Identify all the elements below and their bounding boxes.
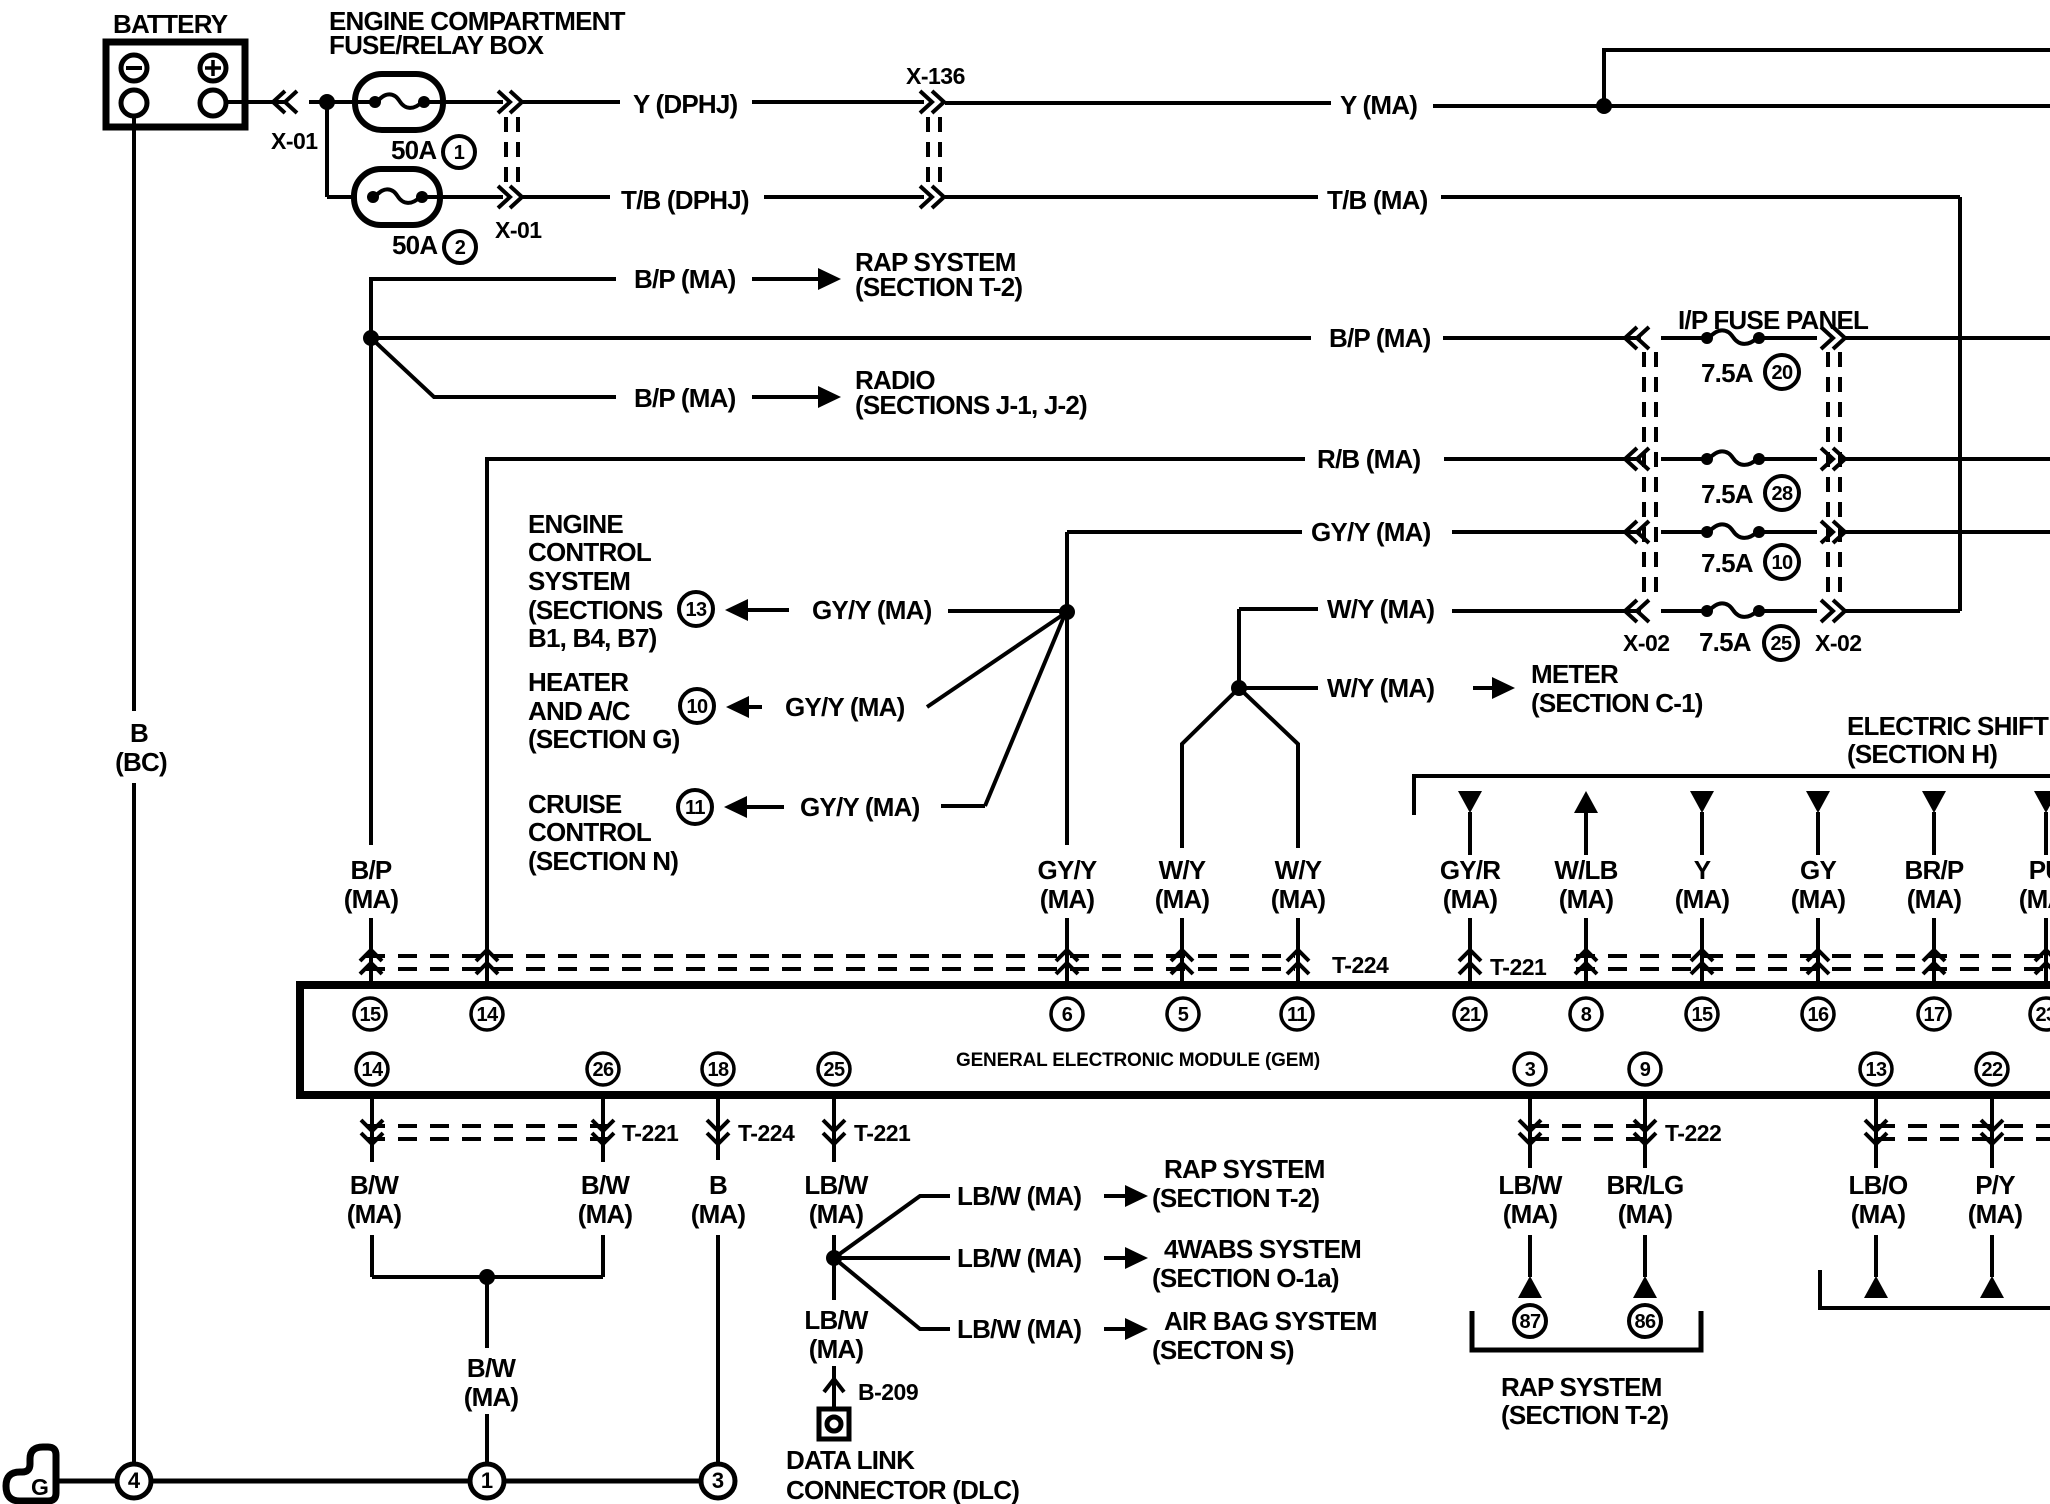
- fuse 7.5A 10: [1637, 521, 1649, 543]
- svg-text:(MA): (MA): [1040, 884, 1095, 914]
- GEM pin 6: [1051, 998, 1083, 1030]
- svg-text:SYSTEM: SYSTEM: [528, 566, 630, 596]
- electric shift wire W/LB (MA): [1574, 791, 1598, 813]
- svg-text:11: 11: [685, 797, 705, 819]
- svg-text:B1, B4, B7): B1, B4, B7): [528, 623, 657, 653]
- RAP system bracket: [1472, 1311, 1701, 1350]
- svg-text:1: 1: [481, 1468, 493, 1493]
- wire R/B (MA): [487, 459, 1305, 985]
- electric shift bracket: [1414, 776, 2050, 815]
- svg-text:(SECTION N): (SECTION N): [528, 846, 678, 876]
- ground node 3: [701, 1464, 735, 1498]
- electric shift wire GY (MA): [1806, 791, 1830, 813]
- GEM pin 9: [1629, 1053, 1661, 1085]
- svg-text:I/P FUSE PANEL: I/P FUSE PANEL: [1678, 305, 1869, 335]
- svg-text:X-136: X-136: [906, 63, 965, 89]
- svg-text:(SECTON S): (SECTON S): [1152, 1335, 1294, 1365]
- svg-text:PU: PU: [2029, 855, 2050, 885]
- svg-text:AND A/C: AND A/C: [528, 696, 631, 726]
- svg-text:B/P (MA): B/P (MA): [634, 264, 736, 294]
- wire LB/W (MA) from GEM pin 3: [1528, 1095, 1532, 1168]
- wire B/P (MA) trunk down to GEM pin 15: [369, 338, 373, 845]
- GEM pin 22: [1976, 1053, 2008, 1085]
- svg-text:CONTROL: CONTROL: [528, 817, 652, 847]
- svg-text:DATA LINK: DATA LINK: [786, 1445, 915, 1475]
- connector X-02 boundary dashes right: [1826, 352, 1830, 600]
- electric shift wire GY/R (MA): [1458, 791, 1482, 813]
- svg-text:P/Y: P/Y: [1975, 1170, 2015, 1200]
- svg-text:20: 20: [1771, 362, 1793, 384]
- svg-text:T-224: T-224: [738, 1120, 795, 1146]
- harness T-222 below GEM: [1530, 1124, 1645, 1128]
- connector X-01 boundary dashes: [504, 117, 508, 184]
- wire GY/Y (MA) to engine control: [743, 608, 789, 612]
- svg-text:18: 18: [707, 1059, 729, 1081]
- node B/W junction: [479, 1269, 495, 1285]
- wire GY/Y (MA) to cruise control: [742, 805, 784, 809]
- svg-text:14: 14: [476, 1004, 499, 1026]
- svg-text:26: 26: [592, 1059, 614, 1081]
- wire W/Y (MA) to meter: [1246, 686, 1318, 690]
- svg-text:LB/W (MA): LB/W (MA): [957, 1314, 1081, 1344]
- svg-text:14: 14: [361, 1059, 384, 1081]
- svg-text:25: 25: [1770, 633, 1792, 655]
- wire BR/LG (MA) from GEM pin 9: [1643, 1095, 1647, 1168]
- svg-text:11: 11: [1287, 1004, 1307, 1026]
- svg-text:6: 6: [1062, 1004, 1073, 1026]
- svg-text:Y (DPHJ): Y (DPHJ): [633, 89, 738, 119]
- GEM pin 18: [702, 1053, 734, 1085]
- wire B/W (MA) from GEM pin 14: [370, 1095, 374, 1162]
- connector X-01 output row 1: [498, 91, 510, 113]
- svg-text:(SECTION C-1): (SECTION C-1): [1531, 688, 1703, 718]
- svg-text:W/Y (MA): W/Y (MA): [1327, 673, 1434, 703]
- wire Y branch to top right: [1604, 50, 2050, 106]
- wire W/Y (MA) from fuse 25: [1239, 607, 1318, 611]
- wire LB/W (MA) to RAP system: [834, 1196, 950, 1258]
- node B/P junction: [363, 330, 379, 346]
- svg-text:LB/O: LB/O: [1849, 1170, 1908, 1200]
- svg-text:1: 1: [454, 142, 465, 164]
- wire B (MA) from GEM pin 18: [716, 1095, 720, 1160]
- wire W/Y trunk: [1237, 609, 1241, 688]
- svg-text:B/P (MA): B/P (MA): [1329, 323, 1431, 353]
- GEM pin 14 top: [471, 998, 503, 1030]
- wire B/W (MA) from GEM pin 26: [601, 1095, 605, 1162]
- svg-text:3: 3: [712, 1468, 724, 1493]
- wire LB/O (MA) from GEM pin 13: [1874, 1095, 1878, 1168]
- svg-text:T-224: T-224: [1332, 952, 1389, 978]
- svg-text:17: 17: [1923, 1004, 1945, 1026]
- svg-text:(SECTION T-2): (SECTION T-2): [1501, 1400, 1668, 1430]
- svg-text:W/Y: W/Y: [1159, 855, 1206, 885]
- terminal 87: [1514, 1305, 1546, 1337]
- svg-text:4: 4: [128, 1468, 141, 1493]
- wire W/Y branch to GEM pin 5: [1182, 688, 1239, 848]
- GEM pin 26: [587, 1053, 619, 1085]
- svg-text:GY/Y (MA): GY/Y (MA): [812, 595, 932, 625]
- wire GY/Y (MA) from fuse 10: [1067, 530, 1302, 534]
- svg-text:LB/W (MA): LB/W (MA): [957, 1243, 1081, 1273]
- electric shift bottom bracket: [1820, 1270, 2050, 1308]
- svg-text:X-01: X-01: [495, 217, 542, 243]
- svg-text:GY/Y (MA): GY/Y (MA): [1311, 517, 1431, 547]
- svg-text:W/LB: W/LB: [1554, 855, 1617, 885]
- svg-text:(SECTION G): (SECTION G): [528, 724, 680, 754]
- svg-text:B: B: [130, 718, 148, 748]
- svg-text:B: B: [709, 1170, 727, 1200]
- svg-text:B/P (MA): B/P (MA): [634, 383, 736, 413]
- svg-text:LB/W: LB/W: [804, 1305, 868, 1335]
- svg-text:R/B (MA): R/B (MA): [1317, 444, 1420, 474]
- svg-text:(MA): (MA): [578, 1199, 633, 1229]
- harness T-224 below GEM: [707, 1120, 729, 1131]
- svg-text:(MA): (MA): [809, 1334, 864, 1364]
- wire T/B (DPHJ): [523, 195, 610, 199]
- svg-text:87: 87: [1519, 1311, 1541, 1333]
- svg-text:GY/R: GY/R: [1440, 855, 1501, 885]
- svg-text:(MA): (MA): [1559, 884, 1614, 914]
- harness T-221 below GEM mid: [823, 1120, 845, 1131]
- GEM pin 16: [1802, 998, 1834, 1030]
- node W/Y junction: [1231, 680, 1247, 696]
- svg-text:(MA): (MA): [1155, 884, 1210, 914]
- svg-text:13: 13: [1865, 1059, 1887, 1081]
- svg-text:RAP SYSTEM: RAP SYSTEM: [1164, 1154, 1325, 1184]
- wire junction down to fuse 2: [325, 102, 329, 197]
- svg-text:B/W: B/W: [350, 1170, 399, 1200]
- fuse 7.5A 28: [1637, 448, 1649, 470]
- terminal 13: [679, 592, 713, 626]
- svg-text:BATTERY: BATTERY: [113, 9, 228, 39]
- svg-text:16: 16: [1807, 1004, 1829, 1026]
- wire B/P (MA) to I/P fuse panel: [371, 336, 1311, 340]
- wire battery positive to connector X-01: [226, 100, 285, 104]
- svg-text:22: 22: [1981, 1059, 2003, 1081]
- svg-text:LB/W: LB/W: [1498, 1170, 1562, 1200]
- wire ground bus: [56, 1479, 117, 1484]
- svg-text:28: 28: [1771, 483, 1793, 505]
- GEM pin 13: [1860, 1053, 1892, 1085]
- svg-text:(SECTION T-2): (SECTION T-2): [1152, 1183, 1319, 1213]
- fusible link 50A 1: [355, 74, 443, 130]
- svg-text:15: 15: [359, 1004, 381, 1026]
- svg-text:(BC): (BC): [115, 747, 167, 777]
- wire B/W (MA) to ground node 1: [485, 1277, 489, 1348]
- svg-text:CONTROL: CONTROL: [528, 537, 652, 567]
- node LB/W junction: [826, 1250, 842, 1266]
- GEM pin 23: [2030, 998, 2050, 1030]
- svg-text:(MA): (MA): [1271, 884, 1326, 914]
- GEM pin 15 top: [354, 998, 386, 1030]
- node GY/Y junction: [1059, 604, 1075, 620]
- svg-text:HEATER: HEATER: [528, 667, 629, 697]
- svg-text:BR/LG: BR/LG: [1607, 1170, 1684, 1200]
- svg-text:(MA): (MA): [344, 884, 399, 914]
- svg-text:X-01: X-01: [271, 128, 318, 154]
- svg-text:T/B (DPHJ): T/B (DPHJ): [621, 185, 749, 215]
- GEM pin 11: [1281, 998, 1313, 1030]
- wire B/W join: [372, 1275, 603, 1279]
- svg-text:GY/Y: GY/Y: [1038, 855, 1097, 885]
- node Y branch junction: [1596, 98, 1612, 114]
- wire GY/Y trunk down to GEM pin 6: [1065, 532, 1069, 845]
- svg-text:Y (MA): Y (MA): [1340, 90, 1417, 120]
- svg-text:(MA): (MA): [2019, 884, 2050, 914]
- svg-text:3: 3: [1525, 1059, 1536, 1081]
- wire LB/W (MA) to air bag system: [834, 1258, 950, 1329]
- connector X-02 boundary dashes left: [1642, 352, 1646, 600]
- svg-text:Y: Y: [1694, 855, 1711, 885]
- svg-text:B/P: B/P: [351, 855, 392, 885]
- node battery feed junction: [309, 100, 355, 104]
- wire LB/W (MA) from GEM pin 25: [832, 1095, 836, 1162]
- fuse 7.5A 25: [1637, 600, 1649, 622]
- svg-text:B/W: B/W: [581, 1170, 630, 1200]
- svg-text:10: 10: [686, 696, 708, 718]
- svg-text:(MA): (MA): [1968, 1199, 2023, 1229]
- svg-text:(MA): (MA): [1907, 884, 1962, 914]
- svg-text:T-221: T-221: [622, 1120, 679, 1146]
- svg-text:23: 23: [2035, 1004, 2050, 1026]
- svg-text:86: 86: [1634, 1311, 1656, 1333]
- wire Y (MA): [945, 101, 1331, 105]
- svg-text:(SECTIONS: (SECTIONS: [528, 595, 663, 625]
- harness T-221 above GEM: [1459, 950, 1481, 961]
- svg-text:(MA): (MA): [1791, 884, 1846, 914]
- svg-text:CRUISE: CRUISE: [528, 789, 622, 819]
- svg-text:LB/W: LB/W: [804, 1170, 868, 1200]
- svg-text:(MA): (MA): [1503, 1199, 1558, 1229]
- connector X-01: [285, 91, 297, 113]
- terminal 11: [678, 790, 712, 824]
- svg-text:T/B (MA): T/B (MA): [1327, 185, 1428, 215]
- GEM pin 5: [1167, 998, 1199, 1030]
- svg-text:13: 13: [685, 599, 707, 621]
- harness T-224 above GEM: [366, 954, 1295, 958]
- wire B/P (MA) to radio: [371, 338, 616, 397]
- svg-text:7.5A: 7.5A: [1701, 548, 1754, 578]
- svg-text:10: 10: [1771, 552, 1793, 574]
- terminal 10: [680, 689, 714, 723]
- wire B/P (MA) to RAP system: [371, 279, 616, 340]
- svg-text:CONNECTOR (DLC): CONNECTOR (DLC): [786, 1475, 1019, 1504]
- electric shift wire BR/P (MA): [1922, 791, 1946, 813]
- svg-text:T-222: T-222: [1665, 1120, 1721, 1146]
- svg-text:21: 21: [1459, 1004, 1481, 1026]
- terminal 86: [1629, 1305, 1661, 1337]
- svg-text:RAP SYSTEM: RAP SYSTEM: [1501, 1372, 1662, 1402]
- svg-text:(MA): (MA): [1618, 1199, 1673, 1229]
- svg-text:5: 5: [1178, 1004, 1189, 1026]
- general electronic module GEM box: [300, 985, 2050, 1095]
- svg-text:(MA): (MA): [464, 1382, 519, 1412]
- GEM pin 14 bottom: [356, 1053, 388, 1085]
- svg-text:B/W: B/W: [467, 1353, 516, 1383]
- svg-text:9: 9: [1640, 1059, 1651, 1081]
- wire LB/W (MA) to 4WABS system: [841, 1256, 950, 1260]
- svg-text:GENERAL ELECTRONIC MODULE (GEM: GENERAL ELECTRONIC MODULE (GEM): [956, 1050, 1320, 1071]
- svg-text:GY/Y (MA): GY/Y (MA): [785, 692, 905, 722]
- svg-text:(MA): (MA): [1443, 884, 1498, 914]
- svg-text:B-209: B-209: [858, 1379, 918, 1405]
- ground node 4: [117, 1464, 151, 1498]
- svg-text:25: 25: [823, 1059, 845, 1081]
- ground node 1: [470, 1464, 504, 1498]
- svg-text:50A: 50A: [392, 230, 438, 260]
- wire T/B (MA): [945, 195, 1318, 199]
- svg-text:GY: GY: [1800, 855, 1836, 885]
- svg-text:2: 2: [455, 237, 466, 259]
- harness below GEM right: [1876, 1124, 2050, 1128]
- electric shift wire Y (MA): [1690, 791, 1714, 813]
- svg-text:T-221: T-221: [1490, 954, 1547, 980]
- GEM pin 15 right: [1686, 998, 1718, 1030]
- wire B (BC) from battery: [132, 116, 136, 711]
- wire Y (DPHJ): [523, 100, 620, 104]
- ground G: [6, 1447, 56, 1501]
- GEM pin 25: [818, 1053, 850, 1085]
- svg-text:(MA): (MA): [809, 1199, 864, 1229]
- svg-text:G: G: [31, 1474, 49, 1500]
- svg-text:(MA): (MA): [691, 1199, 746, 1229]
- svg-text:ENGINE: ENGINE: [528, 509, 623, 539]
- electric shift wire PU (MA): [2034, 791, 2050, 813]
- connector B-209: [824, 1379, 844, 1392]
- wire LB/W (MA) to data link connector: [832, 1258, 836, 1300]
- svg-text:4WABS SYSTEM: 4WABS SYSTEM: [1164, 1234, 1361, 1264]
- svg-text:(SECTION O-1a): (SECTION O-1a): [1152, 1263, 1339, 1293]
- svg-text:(SECTION T-2): (SECTION T-2): [855, 272, 1022, 302]
- svg-text:(MA): (MA): [347, 1199, 402, 1229]
- data link connector DLC: [819, 1409, 849, 1439]
- svg-text:LB/W (MA): LB/W (MA): [957, 1181, 1081, 1211]
- svg-text:7.5A: 7.5A: [1701, 479, 1754, 509]
- svg-text:ELECTRIC SHIFT: ELECTRIC SHIFT: [1847, 711, 2049, 741]
- svg-text:(MA): (MA): [1675, 884, 1730, 914]
- GEM pin 8: [1570, 998, 1602, 1030]
- wire T/B down right side: [1958, 197, 1962, 611]
- wire W/Y branch to GEM pin 11: [1239, 688, 1298, 848]
- svg-text:15: 15: [1691, 1004, 1713, 1026]
- svg-text:X-02: X-02: [1623, 630, 1670, 656]
- connector X-01 output row 2: [498, 186, 510, 208]
- GEM pin 21: [1454, 998, 1486, 1030]
- svg-text:T-221: T-221: [854, 1120, 911, 1146]
- wire P/Y (MA) from GEM pin 22: [1990, 1095, 1994, 1168]
- GEM pin 17: [1918, 998, 1950, 1030]
- svg-text:METER: METER: [1531, 659, 1619, 689]
- svg-text:8: 8: [1581, 1004, 1592, 1026]
- svg-text:X-02: X-02: [1815, 630, 1862, 656]
- GEM pin 3: [1514, 1053, 1546, 1085]
- svg-text:GY/Y (MA): GY/Y (MA): [800, 792, 920, 822]
- svg-text:AIR BAG SYSTEM: AIR BAG SYSTEM: [1164, 1306, 1377, 1336]
- svg-text:50A: 50A: [391, 135, 437, 165]
- harness T-221 below GEM left: [366, 1124, 610, 1128]
- svg-text:FUSE/RELAY BOX: FUSE/RELAY BOX: [329, 30, 545, 60]
- fusible link 50A 2: [354, 169, 440, 225]
- svg-text:W/Y: W/Y: [1275, 855, 1322, 885]
- svg-text:BR/P: BR/P: [1905, 855, 1964, 885]
- svg-text:7.5A: 7.5A: [1701, 358, 1754, 388]
- wire GY/Y (MA) to heater: [744, 705, 762, 709]
- svg-text:(MA): (MA): [1851, 1199, 1906, 1229]
- svg-text:(SECTION H): (SECTION H): [1847, 739, 1997, 769]
- svg-text:(SECTIONS J-1, J-2): (SECTIONS J-1, J-2): [855, 390, 1087, 420]
- svg-text:7.5A: 7.5A: [1699, 627, 1752, 657]
- svg-text:W/Y (MA): W/Y (MA): [1327, 594, 1434, 624]
- fuse 7.5A 20: [1637, 327, 1649, 349]
